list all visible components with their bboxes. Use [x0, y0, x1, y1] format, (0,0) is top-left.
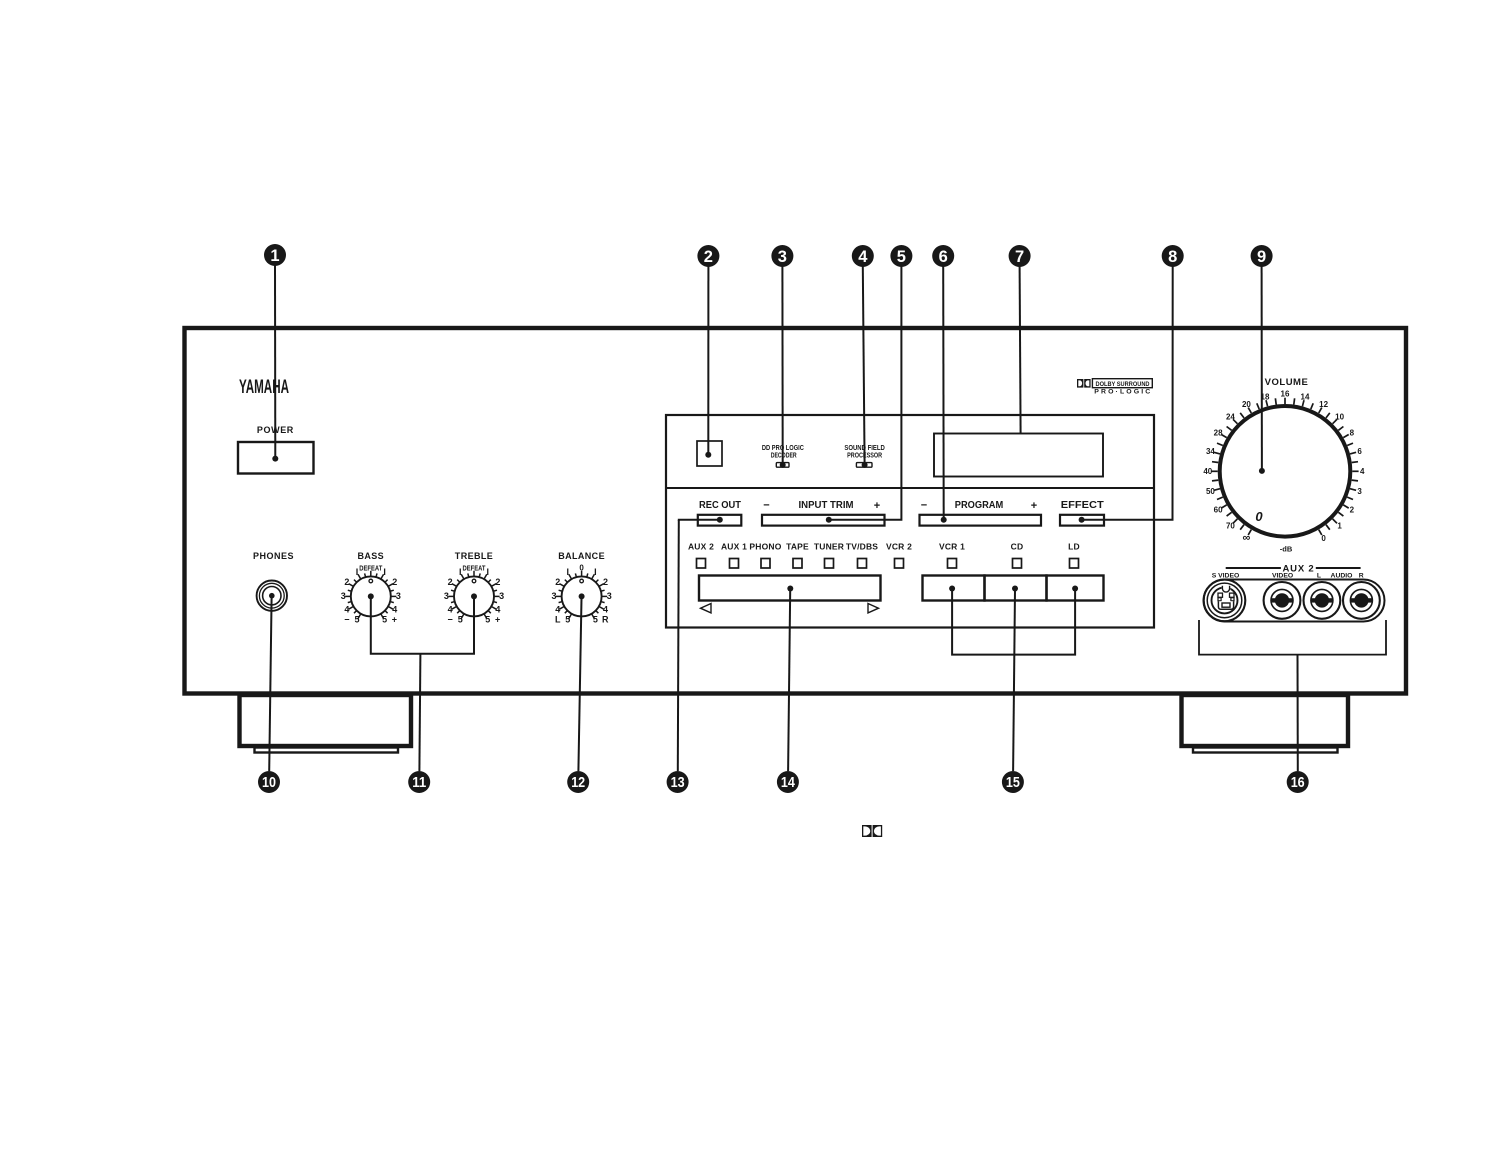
svg-text:6: 6	[1357, 447, 1362, 456]
svg-text:−: −	[763, 500, 769, 512]
svg-text:−: −	[921, 500, 927, 512]
svg-text:3: 3	[341, 591, 346, 601]
callout 3	[771, 245, 793, 267]
svg-text:4: 4	[448, 605, 453, 615]
svg-text:5: 5	[458, 615, 463, 625]
jack plate	[1204, 580, 1385, 622]
RCA jack L	[1304, 582, 1341, 619]
svg-text:I: I	[459, 567, 462, 577]
svg-text:0: 0	[1321, 534, 1326, 543]
svg-text:R: R	[1359, 573, 1364, 580]
sound field processor label	[844, 445, 885, 459]
selector bracket	[952, 589, 1075, 655]
callout 6	[932, 245, 954, 267]
svg-text:S VIDEO: S VIDEO	[1212, 573, 1240, 580]
svg-text:10: 10	[1335, 412, 1344, 421]
callout 7	[1009, 245, 1031, 267]
callout 12	[567, 771, 589, 793]
callout 13	[667, 771, 689, 793]
svg-text:INPUT TRIM: INPUT TRIM	[799, 500, 854, 511]
svg-text:9: 9	[1257, 248, 1266, 266]
svg-text:12: 12	[571, 775, 585, 791]
svg-text:2: 2	[344, 577, 349, 587]
svg-text:5: 5	[382, 615, 387, 625]
volume knob	[1203, 390, 1365, 554]
svg-text:7: 7	[1015, 248, 1024, 266]
INPUT TRIM button	[762, 515, 885, 526]
callout 9	[1251, 245, 1273, 267]
leader 8	[1082, 266, 1173, 520]
svg-text:-dB: -dB	[1280, 545, 1293, 554]
leader 7	[1020, 266, 1021, 434]
svg-text:TUNER: TUNER	[814, 542, 844, 552]
svg-text:3: 3	[551, 591, 556, 601]
svg-text:EFFECT: EFFECT	[1061, 500, 1104, 511]
svg-text:50: 50	[1206, 487, 1215, 496]
svg-text:R: R	[602, 615, 609, 625]
svg-text:AUX 2: AUX 2	[688, 542, 714, 552]
svg-text:VCR 1: VCR 1	[939, 542, 965, 552]
left arrow	[701, 604, 712, 613]
svg-text:40: 40	[1203, 467, 1212, 476]
indicator PHONO	[761, 559, 770, 569]
svg-text:TAPE: TAPE	[786, 542, 809, 552]
callout 1	[264, 244, 286, 266]
display window	[934, 434, 1103, 477]
RCA jack VIDEO	[1264, 582, 1301, 619]
svg-text:8: 8	[1168, 248, 1177, 266]
callout 2	[697, 245, 719, 267]
S-video jack	[1204, 580, 1246, 622]
svg-text:∞: ∞	[1242, 532, 1250, 544]
svg-text:L: L	[1317, 573, 1321, 580]
svg-text:16: 16	[1281, 390, 1290, 399]
svg-text:1: 1	[270, 247, 279, 265]
control section box	[666, 415, 1154, 628]
svg-text:I: I	[594, 567, 597, 577]
svg-text:34: 34	[1206, 447, 1215, 456]
DD pro logic decoder label	[762, 445, 804, 459]
leader 12	[578, 598, 581, 771]
svg-text:PRO·LOGIC: PRO·LOGIC	[1094, 389, 1152, 396]
leader 4	[863, 266, 865, 465]
leader 2	[707, 266, 709, 455]
svg-text:VCR 2: VCR 2	[886, 542, 912, 552]
svg-text:5: 5	[565, 615, 570, 625]
svg-text:REC OUT: REC OUT	[699, 500, 741, 511]
svg-text:1: 1	[1337, 522, 1342, 531]
svg-text:2: 2	[1350, 506, 1355, 515]
svg-text:5: 5	[593, 615, 598, 625]
svg-text:I: I	[567, 567, 570, 577]
svg-text:3: 3	[778, 248, 787, 266]
indicator VCR 2	[895, 559, 904, 569]
sound field processor button	[856, 463, 872, 468]
left foot	[240, 695, 412, 746]
indicator AUX 2	[697, 559, 706, 569]
leader 14	[788, 590, 790, 771]
left foot base	[255, 748, 399, 753]
svg-text:DOLBY SURROUND: DOLBY SURROUND	[1096, 381, 1150, 388]
svg-text:AUX 1: AUX 1	[721, 542, 747, 552]
svg-text:60: 60	[1214, 506, 1223, 515]
indicator TUNER	[825, 559, 834, 569]
leader 9	[1261, 266, 1263, 471]
svg-text:L: L	[555, 615, 561, 625]
svg-text:13: 13	[671, 775, 685, 791]
callout 10	[258, 771, 280, 793]
callout 11	[408, 771, 430, 793]
leader 3	[781, 266, 783, 465]
svg-text:CD: CD	[1011, 542, 1024, 552]
leader 5	[829, 266, 902, 520]
svg-text:2: 2	[603, 577, 608, 587]
svg-text:10: 10	[262, 775, 276, 791]
svg-text:TREBLE: TREBLE	[455, 551, 493, 561]
callout 4	[852, 245, 874, 267]
leader 15	[1013, 590, 1015, 771]
svg-text:+: +	[392, 615, 397, 625]
indicator TV/DBS	[858, 559, 867, 569]
svg-text:+: +	[495, 615, 500, 625]
dolby surround pro-logic logo	[1077, 379, 1152, 396]
svg-text:70: 70	[1226, 522, 1235, 531]
svg-text:4: 4	[1360, 467, 1365, 476]
svg-text:6: 6	[939, 248, 948, 266]
right arrow	[868, 604, 879, 613]
AUX2 bracket	[1199, 620, 1386, 655]
leader 6	[942, 266, 945, 520]
svg-text:3: 3	[607, 591, 612, 601]
svg-text:3: 3	[499, 591, 504, 601]
svg-text:28: 28	[1214, 428, 1223, 437]
tape monitor square button	[697, 441, 722, 466]
svg-text:11: 11	[412, 775, 426, 791]
right foot	[1182, 695, 1349, 746]
svg-text:16: 16	[1291, 775, 1305, 791]
indicator TAPE	[793, 559, 802, 569]
leader 13	[679, 520, 720, 521]
leader 16	[1297, 655, 1299, 771]
svg-text:AUDIO: AUDIO	[1331, 573, 1353, 580]
LD button	[1047, 576, 1104, 601]
svg-text:VIDEO: VIDEO	[1272, 573, 1293, 580]
CD button	[985, 576, 1047, 601]
svg-text:LD: LD	[1068, 542, 1080, 552]
svg-text:8: 8	[1350, 428, 1355, 437]
svg-text:I: I	[383, 567, 386, 577]
callout 15	[1002, 771, 1024, 793]
svg-text:2: 2	[392, 577, 397, 587]
svg-text:I: I	[356, 567, 359, 577]
svg-text:4: 4	[495, 605, 500, 615]
leader 10	[269, 597, 271, 771]
BASS knob	[341, 566, 401, 625]
EFFECT button	[1060, 515, 1104, 526]
svg-text:2: 2	[495, 577, 500, 587]
amplifier front panel outline	[185, 328, 1407, 694]
svg-text:PHONES: PHONES	[253, 551, 294, 561]
input selector rocker button	[699, 576, 881, 601]
VCR 1 button	[923, 576, 985, 601]
svg-text:15: 15	[1006, 775, 1020, 791]
svg-text:DECODER: DECODER	[771, 452, 797, 459]
leader 11	[371, 596, 474, 653]
svg-text:+: +	[1031, 500, 1037, 512]
TREBLE knob	[444, 566, 504, 625]
svg-text:BALANCE: BALANCE	[558, 551, 605, 561]
svg-text:−: −	[344, 615, 349, 625]
callout 8	[1162, 245, 1184, 267]
jack labels	[1212, 573, 1364, 580]
svg-text:2: 2	[448, 577, 453, 587]
svg-text:4: 4	[603, 605, 608, 615]
svg-text:−: −	[447, 615, 452, 625]
svg-text:TV/DBS: TV/DBS	[846, 542, 879, 552]
svg-text:20: 20	[1242, 400, 1251, 409]
pro logic decoder button	[776, 463, 789, 468]
svg-text:YAMAHA: YAMAHA	[239, 377, 289, 398]
svg-text:14: 14	[1301, 392, 1310, 401]
svg-text:BASS: BASS	[357, 551, 384, 561]
leader 1	[274, 265, 276, 459]
svg-text:3: 3	[396, 591, 401, 601]
svg-text:12: 12	[1319, 400, 1328, 409]
svg-text:5: 5	[897, 248, 906, 266]
svg-text:2: 2	[704, 248, 713, 266]
svg-text:4: 4	[392, 605, 397, 615]
control section divider	[666, 487, 1154, 489]
svg-text:4: 4	[555, 605, 560, 615]
dolby double-D mark	[862, 825, 882, 837]
svg-text:3: 3	[1357, 487, 1362, 496]
svg-text:5: 5	[354, 615, 359, 625]
indicator AUX 1	[730, 559, 739, 569]
svg-text:VOLUME: VOLUME	[1265, 377, 1309, 388]
POWER button	[238, 442, 314, 474]
indicator LD	[1070, 559, 1079, 569]
svg-text:PHONO: PHONO	[749, 542, 781, 552]
svg-text:4: 4	[344, 605, 349, 615]
RCA jack R	[1343, 582, 1380, 619]
svg-text:+: +	[874, 500, 880, 512]
callout 16	[1287, 771, 1309, 793]
PHONES jack	[257, 581, 287, 611]
indicator VCR 1	[948, 559, 957, 569]
svg-text:PROGRAM: PROGRAM	[955, 500, 1004, 511]
svg-text:0: 0	[1255, 509, 1263, 524]
BALANCE knob	[551, 564, 611, 625]
callout 14	[777, 771, 799, 793]
svg-text:24: 24	[1226, 412, 1235, 421]
svg-text:5: 5	[485, 615, 490, 625]
svg-text:2: 2	[555, 577, 560, 587]
indicator CD	[1013, 559, 1022, 569]
svg-text:3: 3	[444, 591, 449, 601]
svg-text:4: 4	[858, 248, 868, 266]
svg-text:14: 14	[781, 775, 795, 791]
PROGRAM button	[920, 515, 1042, 526]
AUX 2 header	[1226, 564, 1361, 575]
callout 5	[890, 245, 912, 267]
svg-text:I: I	[487, 567, 490, 577]
REC OUT button	[698, 515, 742, 526]
right foot base	[1193, 748, 1338, 753]
